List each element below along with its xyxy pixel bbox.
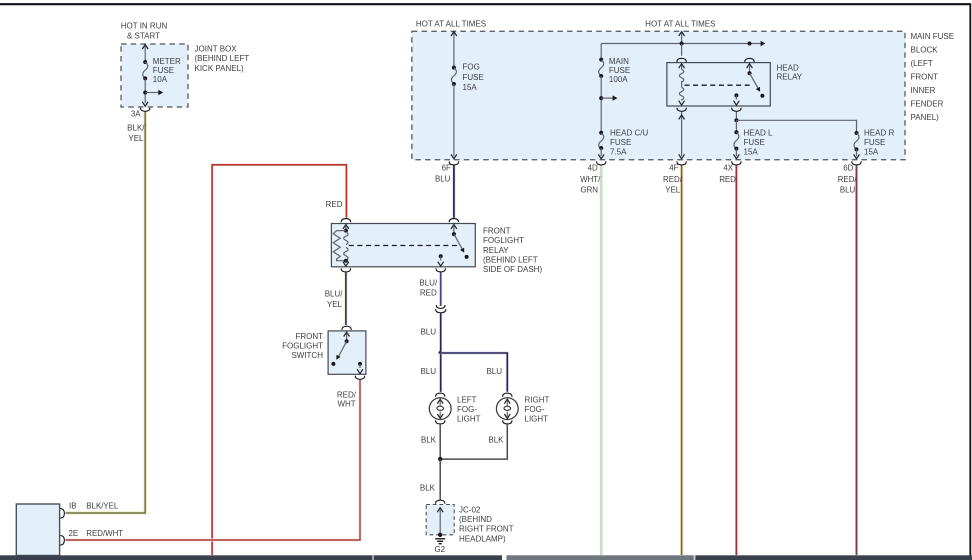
connector cup right fog light top [503, 393, 512, 397]
foglight relay internal dashed link [349, 245, 460, 247]
svg-text:HEAD R: HEAD R [864, 128, 894, 137]
head relay label [777, 63, 803, 81]
node branch junction main fuse [599, 96, 603, 100]
connector cup head relay coil top [677, 58, 686, 62]
foglight relay switch arm [451, 225, 469, 259]
svg-text:BLU: BLU [840, 186, 856, 195]
svg-text:15A: 15A [864, 148, 879, 157]
wire BLU connector to junction [439, 313, 442, 353]
inline connector on fog light feed [436, 305, 446, 313]
wire BLK right fog light down and across [440, 425, 507, 459]
svg-text:JOINT BOX: JOINT BOX [195, 45, 238, 54]
svg-text:GRN: GRN [580, 186, 598, 195]
fuse HEAD R FUSE 15A [854, 131, 859, 151]
connector cup head relay switch top [745, 58, 754, 62]
wire label BLU (left branch) [420, 367, 436, 376]
svg-text:6F: 6F [442, 163, 451, 172]
wire BLK left fog light down [439, 425, 441, 459]
svg-text:G2: G2 [435, 545, 446, 554]
svg-text:FOGLIGHT: FOGLIGHT [483, 236, 524, 245]
svg-text:RELAY: RELAY [777, 73, 803, 82]
wire fog fuse column bottom [451, 84, 457, 159]
svg-text:FRONT: FRONT [911, 72, 939, 81]
wire BLK junction to ground connector [439, 459, 441, 500]
svg-text:6D: 6D [843, 163, 853, 172]
svg-text:HOT AT ALL TIMES: HOT AT ALL TIMES [416, 19, 486, 28]
wire BLU/YEL relay to switch [344, 273, 347, 325]
taskbar white gap [502, 555, 507, 560]
joint box label [195, 45, 250, 73]
wire BLU junction to left fog light [439, 353, 442, 392]
wire head relay output to junction [735, 112, 737, 120]
svg-text:SWITCH: SWITCH [291, 351, 323, 360]
svg-text:FOG: FOG [463, 63, 480, 72]
svg-text:RELAY: RELAY [483, 246, 509, 255]
svg-text:4D: 4D [588, 163, 598, 172]
pin label 4X [723, 163, 733, 172]
svg-text:RIGHT FRONT: RIGHT FRONT [459, 525, 514, 534]
connector cup right fog light bottom [503, 420, 512, 424]
wire label BLK (left) [421, 436, 437, 445]
svg-text:& START: & START [127, 31, 160, 40]
foglight switch arm [331, 332, 349, 366]
wire head relay coil to 4F exit [679, 112, 685, 159]
foglight relay resistor zigzag [333, 231, 346, 261]
svg-text:FOG-: FOG- [525, 405, 545, 414]
wire label RED/YEL [663, 175, 683, 195]
wire joint box internal [144, 78, 146, 103]
wire head relay coil feed [681, 44, 683, 56]
svg-text:HEADLAMP): HEADLAMP) [459, 534, 506, 543]
wire head R fuse exit [854, 149, 860, 158]
svg-text:YEL: YEL [128, 134, 144, 143]
svg-text:RIGHT: RIGHT [525, 395, 550, 404]
connector cup foglight relay coil bottom [341, 268, 350, 272]
wire label BLU (above junction) [420, 328, 436, 337]
svg-text:BLU/: BLU/ [325, 290, 344, 299]
svg-text:HEAD L: HEAD L [744, 128, 773, 137]
connector pin 4F cup [677, 161, 686, 165]
foglight relay coil pin top [343, 225, 349, 233]
ground G2 symbol [435, 539, 445, 544]
pin label 4F [669, 163, 678, 172]
svg-text:WHT: WHT [337, 400, 355, 409]
svg-text:FUSE: FUSE [744, 138, 765, 147]
svg-text:BLK: BLK [420, 483, 436, 492]
fuse HEAD C/U FUSE 7.5A [599, 131, 604, 150]
svg-text:15A: 15A [744, 148, 759, 157]
wire label BLK/YEL [127, 124, 145, 143]
svg-text:(BEHIND LEFT: (BEHIND LEFT [483, 256, 538, 265]
svg-text:RED/WHT: RED/WHT [86, 529, 123, 538]
svg-text:FUSE: FUSE [609, 66, 630, 75]
fog fuse value label [463, 63, 484, 93]
wire RED battery feed to foglight relay [212, 165, 346, 555]
pin label 4D [588, 163, 598, 172]
pin label 6D [843, 163, 853, 172]
svg-text:BLU/: BLU/ [419, 279, 438, 288]
wire exit arrow to pin 3A [142, 102, 148, 106]
foglight switch output contact [357, 362, 363, 374]
fuse FOG FUSE 15A [451, 66, 456, 86]
wire head L fuse exit [734, 149, 740, 159]
head L fuse value label [744, 128, 773, 156]
svg-text:4F: 4F [669, 163, 678, 172]
ground label G2 [435, 545, 446, 554]
taskbar seam left [372, 555, 373, 560]
foglight relay coil [344, 232, 348, 260]
wire BLU/RED relay output down [439, 273, 442, 306]
connector pin 4D cup [596, 161, 605, 165]
svg-text:RED/: RED/ [337, 390, 357, 399]
node branch junction in joint box [143, 91, 147, 95]
joint box (dashed) [121, 44, 188, 107]
wire junction to head R fuse [736, 120, 856, 133]
svg-text:HOT AT ALL TIMES: HOT AT ALL TIMES [645, 19, 715, 28]
page right border line [969, 3, 971, 555]
connector cup foglight relay switch top [449, 219, 458, 223]
svg-text:YEL: YEL [327, 300, 343, 309]
fuse METER FUSE 10A [143, 60, 148, 80]
svg-text:BLOCK: BLOCK [911, 45, 939, 54]
svg-text:BLK: BLK [421, 436, 437, 445]
node label HOT AT ALL TIMES (fog fuse) [416, 19, 486, 28]
connector cup foglight switch top [342, 326, 351, 330]
svg-text:BLU: BLU [486, 367, 502, 376]
connector cup foglight relay coil top [341, 219, 350, 223]
svg-text:SIDE OF DASH): SIDE OF DASH) [483, 265, 542, 274]
svg-text:IB: IB [69, 501, 76, 510]
svg-text:FENDER: FENDER [911, 99, 944, 108]
connector pin 2E cup [60, 536, 64, 545]
wire branch arrow to other circuits [145, 90, 163, 95]
node junction head L / head R [734, 118, 738, 122]
pin label IB BLK/YEL [69, 501, 119, 510]
connector cup left fog light bottom [435, 420, 444, 424]
ground joint JC-02 box (dashed) [426, 505, 454, 535]
page top border line [0, 3, 970, 5]
svg-text:BLK: BLK [488, 436, 504, 445]
wire fog fuse column top [451, 32, 457, 68]
svg-text:RED/: RED/ [663, 175, 683, 184]
svg-text:YEL: YEL [665, 186, 681, 195]
svg-text:KICK PANEL): KICK PANEL) [195, 64, 245, 73]
wire label RED [326, 200, 343, 209]
svg-text:100A: 100A [609, 75, 628, 84]
svg-text:INNER: INNER [911, 86, 936, 95]
head relay output contact [734, 93, 740, 105]
node junction feed / head relay coil [680, 42, 684, 46]
connector cup JC-02 top [435, 500, 444, 504]
wire BLU from 6F to relay [452, 166, 455, 218]
svg-text:LIGHT: LIGHT [457, 415, 481, 424]
svg-text:BLU: BLU [420, 328, 436, 337]
svg-text:(BEHIND LEFT: (BEHIND LEFT [195, 54, 250, 63]
pin label 2E RED/WHT [69, 529, 124, 538]
connector cup foglight switch bottom [355, 376, 364, 380]
svg-text:(BEHIND: (BEHIND [459, 515, 492, 524]
node label HOT AT ALL TIMES (main fuse) [645, 19, 715, 28]
wire label BLU/RED [419, 279, 438, 298]
foglight switch label [282, 332, 323, 360]
svg-text:FOGLIGHT: FOGLIGHT [282, 342, 323, 351]
switch S1 FRONT FOGLIGHT SWITCH box [328, 331, 366, 374]
meter fuse value label [153, 57, 181, 84]
node junction feed / head relay switch [748, 42, 752, 46]
svg-text:HEAD: HEAD [777, 63, 799, 72]
pin label 6F [442, 163, 451, 172]
taskbar seam right [694, 555, 696, 560]
svg-text:MAIN FUSE: MAIN FUSE [911, 32, 955, 41]
wire label RED/WHT [337, 390, 357, 408]
svg-text:(LEFT: (LEFT [911, 59, 933, 68]
svg-text:BLK/YEL: BLK/YEL [86, 501, 119, 510]
wire main fuse to head c/u fuse [600, 76, 602, 133]
svg-text:LEFT: LEFT [457, 395, 477, 404]
head c/u fuse value label [610, 128, 648, 156]
svg-text:3A: 3A [131, 110, 141, 119]
svg-text:HEAD C/U: HEAD C/U [610, 128, 648, 137]
connector pin 3A cup [140, 108, 149, 112]
svg-text:RED/: RED/ [838, 175, 858, 184]
svg-text:MAIN: MAIN [609, 57, 629, 66]
wire label BLU (right branch) [486, 367, 502, 376]
main fuse block (dashed) [412, 31, 905, 160]
wire meter fuse feed [142, 45, 148, 62]
svg-text:BLU: BLU [435, 175, 451, 184]
wire WHT/GRN down to bottom [599, 166, 603, 555]
connector pin IB cup [60, 509, 64, 518]
svg-text:BLU: BLU [420, 367, 436, 376]
foglight relay coil pin bottom [343, 259, 349, 266]
JC-02 label [459, 505, 514, 543]
wire hot feed up arrow [679, 32, 685, 44]
svg-text:BLK/: BLK/ [127, 124, 145, 133]
svg-text:RED: RED [719, 175, 736, 184]
svg-text:FUSE: FUSE [864, 138, 885, 147]
wire RED down to bottom [735, 166, 738, 555]
head relay switch arm [747, 64, 765, 98]
svg-text:15A: 15A [463, 83, 478, 92]
wire label BLU (6F) [435, 175, 451, 184]
lamp LEFT FOG LIGHT [429, 398, 451, 420]
connector cup left fog light top [435, 393, 444, 397]
wire label RED/BLU [838, 175, 858, 195]
lamp RIGHT FOG LIGHT [496, 398, 518, 420]
wire RED/BLU down to bottom [855, 166, 858, 555]
wire label WHT/GRN [580, 175, 601, 195]
head relay coil [679, 64, 685, 105]
wire BLU junction to right fog light [441, 353, 508, 392]
wire label BLU/YEL [325, 290, 344, 309]
taskbar gray segment [507, 555, 694, 560]
wire BLK/YEL from joint box to bottom connector [66, 112, 146, 513]
head R fuse value label [864, 128, 894, 156]
node label HOT IN RUN & START [121, 22, 168, 41]
wire head c/u fuse exit [598, 148, 604, 159]
node ground junction [438, 457, 442, 461]
svg-text:FRONT: FRONT [483, 226, 511, 235]
svg-text:PANEL): PANEL) [911, 113, 940, 122]
foglight relay output contact [438, 254, 444, 266]
right fog light label [525, 395, 550, 423]
svg-text:RED: RED [326, 200, 343, 209]
node junction left/right fog lights [439, 351, 443, 355]
svg-text:JC-02: JC-02 [459, 505, 481, 514]
svg-text:FUSE: FUSE [610, 138, 631, 147]
wire RED/WHT switch to bottom connector [66, 380, 361, 540]
connector box bottom left [16, 504, 59, 556]
main fuse block label [911, 32, 955, 122]
svg-text:2E: 2E [69, 529, 79, 538]
svg-text:4X: 4X [723, 163, 733, 172]
relay U2 HEAD RELAY box [667, 63, 770, 106]
svg-text:LIGHT: LIGHT [525, 415, 549, 424]
JC-02 internal arrow [437, 508, 443, 537]
wire main fuse column top [600, 44, 602, 60]
wire label BLK (right) [488, 436, 504, 445]
svg-text:FRONT: FRONT [295, 332, 323, 341]
relay U1 FRONT FOGLIGHT RELAY box [331, 224, 475, 267]
left fog light label [457, 395, 481, 423]
taskbar dark left segment [0, 555, 502, 560]
wire hot feed horizontal in fuse block [601, 41, 765, 46]
svg-text:FUSE: FUSE [153, 66, 174, 75]
main fuse value label [609, 57, 630, 84]
taskbar dark right segment [696, 555, 972, 560]
svg-text:FOG-: FOG- [457, 405, 477, 414]
fuse MAIN FUSE 100A [599, 58, 604, 78]
connector pin 4X cup [732, 161, 741, 165]
svg-text:FUSE: FUSE [463, 73, 484, 82]
fuse HEAD L FUSE 15A [734, 120, 739, 150]
wire label BLK (ground lead) [420, 483, 436, 492]
foglight relay label [483, 226, 542, 274]
wire label RED (4X) [719, 175, 736, 184]
connector pin 6D cup [852, 161, 861, 165]
svg-text:HOT IN RUN: HOT IN RUN [121, 22, 168, 31]
svg-text:METER: METER [153, 57, 181, 66]
wire RED/YEL down to bottom [680, 166, 683, 555]
svg-text:10A: 10A [153, 75, 168, 84]
connector pin 6F cup [449, 161, 458, 165]
connector cup head relay coil bottom [677, 108, 686, 112]
wire branch arrow to other circuits (main fuse) [601, 95, 617, 100]
pin label 3A [131, 110, 141, 119]
svg-text:7.5A: 7.5A [610, 148, 627, 157]
svg-text:RED: RED [420, 288, 437, 297]
connector cup head relay output bottom [732, 108, 741, 112]
svg-text:WHT/: WHT/ [580, 175, 601, 184]
connector cup foglight relay output bottom [436, 268, 445, 272]
head relay internal dashed link [685, 84, 752, 86]
